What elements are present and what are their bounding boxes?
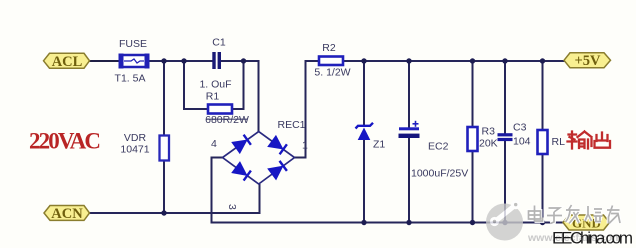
resistor R1 (208, 105, 232, 114)
svg-text:C3: C3 (513, 122, 527, 134)
wire C3 bottom lead (504, 140, 506, 223)
wire VDR bottom to ACN rail (163, 160, 165, 213)
svg-text:EEChina.com: EEChina.com (552, 229, 633, 248)
svg-text:R2: R2 (322, 42, 336, 54)
bridge diode bottom-right (269, 161, 287, 178)
svg-text:5. 1/2W: 5. 1/2W (314, 67, 350, 79)
svg-text:Z1: Z1 (373, 139, 385, 151)
wire R3 bottom lead (472, 150, 474, 223)
junction dot EC2 bottom (406, 220, 411, 225)
svg-text:FUSE: FUSE (119, 38, 147, 50)
watermark Chinese text you (607, 206, 620, 224)
bridge diode bottom-left (233, 163, 251, 180)
svg-text:1000uF/25V: 1000uF/25V (411, 168, 468, 180)
resistor RL (538, 130, 548, 154)
svg-text:+5V: +5V (575, 53, 602, 69)
capacitor C3 (498, 133, 513, 141)
svg-text:REC1: REC1 (278, 119, 306, 131)
svg-text:VDR: VDR (124, 132, 147, 144)
fuse FUSE (119, 54, 150, 69)
wire pin 1 vertical up to R2 (305, 61, 307, 158)
wire RL bottom lead (542, 153, 544, 223)
junction dot EC2 top (406, 58, 411, 63)
wire bridge pin 4 stub (211, 157, 224, 159)
svg-text:R3: R3 (482, 126, 496, 138)
bridge diode top-right (269, 137, 287, 154)
svg-text:680R/2W: 680R/2W (205, 114, 249, 126)
varistor VDR (160, 136, 170, 161)
svg-text:4: 4 (211, 138, 217, 150)
watermark Chinese text fa (566, 205, 580, 224)
svg-text:10471: 10471 (120, 144, 149, 156)
wire R1 loop right horizontal (232, 108, 244, 110)
zener diode Z1 (356, 123, 374, 140)
wire R1 loop left horizontal (183, 108, 208, 110)
junction dot R1 loop right (241, 58, 246, 63)
junction dot C3 top (502, 58, 507, 63)
wire R1 loop right vertical (243, 61, 245, 110)
wire bridge pin 1 stub (294, 157, 307, 159)
net label +5V (564, 53, 611, 69)
wire fuse junction down to VDR top (163, 61, 165, 136)
watermark Chinese text shao (585, 206, 603, 222)
wire vertical down to bridge top pin 2 (258, 61, 260, 132)
wire C3 top lead (504, 61, 506, 134)
junction dot R3 bottom (470, 220, 475, 225)
wire bottom negative rail (211, 222, 564, 224)
watermark Chinese text dian (529, 206, 543, 222)
text output (Chinese) (568, 132, 611, 149)
wire R2 right to +5V tag (343, 60, 565, 62)
svg-text:EC2: EC2 (428, 141, 449, 153)
resistor R2 (319, 57, 343, 66)
junction dot Z1 bottom (361, 220, 366, 225)
watermark Chinese text zi (547, 208, 562, 224)
wire Z1 top lead (363, 61, 365, 126)
wire EC2 bottom lead (408, 136, 410, 223)
svg-text:20K: 20K (479, 138, 498, 150)
wire C1 right plate to top corner (221, 60, 260, 62)
junction dot C3 bottom (502, 220, 507, 225)
junction dot Z1 top (361, 58, 366, 63)
junction dot RL bottom (540, 220, 545, 225)
bridge rectifier REC1 diamond (223, 132, 295, 185)
junction dot VDR bottom on ACN rail (161, 210, 166, 215)
resistor R1 value 680R/2W (205, 114, 249, 126)
wire RL top lead (542, 61, 544, 130)
capacitor C1 (212, 52, 221, 69)
wire ACL to fuse (89, 60, 121, 62)
wire pin 4 vertical down (211, 158, 213, 223)
svg-text:220VAC: 220VAC (29, 129, 101, 154)
resistor R3 (468, 127, 478, 151)
svg-text:ACN: ACN (51, 206, 83, 222)
wire ACN rail up to bridge bottom pin 3 (259, 184, 261, 213)
wire EC2 top lead (408, 61, 410, 128)
wire ACN rail (89, 212, 261, 214)
junction dot RL top (540, 58, 545, 63)
electrolytic capacitor EC2 (399, 121, 420, 138)
svg-text:R1: R1 (206, 91, 220, 103)
junction dot R3 top (470, 58, 475, 63)
svg-text:RL: RL (552, 136, 566, 148)
wire fuse to C1 left plate (147, 60, 213, 62)
wire R1 loop left vertical (183, 61, 185, 109)
net label ACL (44, 53, 90, 70)
wire R3 top lead (472, 61, 474, 128)
wire R2 left lead (305, 60, 320, 62)
junction dot R1 loop left (181, 58, 186, 63)
junction dot fuse/VDR top (161, 58, 166, 63)
svg-text:C1: C1 (212, 37, 226, 49)
svg-text:1. OuF: 1. OuF (199, 79, 231, 91)
svg-text:1: 1 (302, 140, 308, 152)
svg-text:104: 104 (513, 136, 531, 148)
watermark logo circle (486, 200, 523, 241)
svg-text:ACL: ACL (52, 54, 83, 70)
net label GND (bottom right, under watermark) (563, 215, 610, 230)
wire Z1 bottom lead (363, 139, 365, 223)
bridge diode top-left (233, 135, 251, 152)
svg-text:T1. 5A: T1. 5A (115, 73, 146, 85)
svg-text:3: 3 (226, 204, 238, 210)
net label ACN (44, 206, 90, 223)
